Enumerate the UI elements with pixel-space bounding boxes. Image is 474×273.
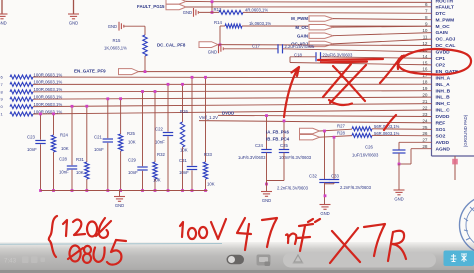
resistor 100R row 5 [10, 105, 33, 109]
resistor 100R row 3 [10, 90, 33, 94]
svg-text:1uF/16V/0603: 1uF/16V/0603 [352, 153, 379, 158]
annotation 1206 [63, 218, 111, 238]
svg-text:10K: 10K [180, 148, 188, 153]
capacitor C21 [107, 138, 109, 143]
svg-text:CP2: CP2 [436, 63, 446, 69]
svg-text:R13: R13 [214, 7, 222, 12]
op-amp U1 gate driver IC body outline [431, 0, 433, 156]
resistor R27 [352, 127, 372, 131]
wire bus row 5 to IC [33, 104, 432, 107]
wire C24 bottom [266, 153, 268, 185]
svg-text:CP1: CP1 [436, 56, 446, 62]
svg-text:DVDD: DVDD [222, 110, 234, 115]
svg-text:C32: C32 [309, 173, 317, 178]
annotation stray stroke [384, 115, 396, 130]
wire R13 to pin7 [243, 11, 432, 14]
junction C25/REF [283, 120, 286, 123]
svg-text:FAULT_PG15: FAULT_PG15 [137, 4, 165, 9]
svg-text:GND: GND [0, 21, 7, 26]
svg-text:R24: R24 [60, 133, 68, 138]
annotation 100V [180, 219, 226, 239]
wire vertical drop x=120.6 [120, 99, 122, 191]
capacitor C22 [167, 132, 169, 137]
svg-text:OC_ADJ: OC_ADJ [436, 37, 456, 43]
junction bus bottom x=142.5 [141, 189, 144, 192]
svg-text:C28: C28 [59, 157, 67, 162]
junction bus bottom x=107.8 [106, 189, 109, 192]
capacitor C29 [141, 166, 143, 171]
svg-text:M_PWM: M_PWM [436, 17, 455, 23]
wire gnd to R13 [199, 11, 219, 13]
svg-text:R26: R26 [180, 109, 188, 114]
junction bus bottom x=86.8 [85, 189, 88, 192]
wire AVDD down to C26 [398, 142, 400, 150]
svg-text:1uF/6.3V/0603: 1uF/6.3V/0603 [238, 155, 266, 160]
svg-text:INL_C: INL_C [436, 108, 451, 114]
svg-text:10nF: 10nF [128, 170, 138, 175]
junction bus bottom x=53.5 [52, 189, 55, 192]
wire C18 left leg [290, 56, 316, 58]
wire C18 to pin15 CP2 [290, 63, 432, 65]
wire C32 top [324, 131, 326, 180]
junction row tap x=120.6 [119, 97, 122, 100]
node B junction [211, 11, 214, 14]
annotation ditto marks [308, 219, 320, 222]
svg-text:nFAULT: nFAULT [436, 4, 454, 10]
wire vertical drop x=182.5 [182, 84, 184, 190]
svg-text:C21: C21 [94, 135, 102, 140]
off-page flag upper (clipped net) [166, 0, 186, 4]
off-page flag EN_GATE_PF9 [119, 69, 139, 75]
junction bus bottom x=182.5 [181, 189, 184, 192]
svg-text:1k,0603,1%: 1k,0603,1% [249, 21, 271, 26]
junction C32/IA [323, 130, 326, 133]
resistor R24 [51, 135, 56, 152]
wire vertical drop x=142.5 [142, 92, 144, 191]
capacitor C17 [277, 44, 279, 53]
capacitor C23 [39, 140, 41, 145]
svg-text:C25: C25 [280, 143, 288, 148]
junction row tap x=107.8 [106, 97, 109, 100]
resistor R26 [180, 122, 185, 147]
junction row tap x=168.0 [167, 83, 170, 86]
wire C26 bottom [398, 153, 400, 164]
node A junction [211, 0, 214, 3]
svg-text:ROCTH: ROCTH [436, 0, 454, 4]
wire vertical drop x=86.8 [86, 106, 88, 190]
svg-text:DC_CAL_PF8: DC_CAL_PF8 [157, 42, 186, 47]
svg-text:11: 11 [423, 35, 428, 40]
svg-text:10nF: 10nF [155, 140, 165, 145]
annotation oval around CP pins [398, 49, 471, 75]
resistor R15 [143, 35, 147, 56]
wire DC_CAL to pin12 [218, 44, 432, 47]
svg-text:EN_GATE_PF9: EN_GATE_PF9 [74, 69, 106, 74]
wire bottom GND bus [41, 190, 208, 192]
svg-text:10nF: 10nF [59, 170, 69, 175]
wire thermal pad stub [454, 156, 456, 180]
svg-text:GAIN: GAIN [297, 33, 308, 38]
resistor 100R row 4 [10, 97, 33, 101]
ground top far-left (clipped) [1, 0, 3, 14]
wire vertical drop x=192.0 [191, 77, 193, 190]
junction row tap x=40.5 [39, 113, 42, 116]
svg-text:10K: 10K [128, 140, 136, 145]
resistor R32 [152, 162, 157, 179]
junction bus bottom x=72.0 [71, 189, 74, 192]
junction row tap x=182.5 [181, 83, 184, 86]
wire down to gnd F [398, 164, 400, 190]
decorative faint blue rule [0, 243, 222, 246]
svg-text:10nF: 10nF [27, 147, 37, 152]
wire GAIN to IC [333, 33, 432, 36]
wire vertical drop x=107.8 [107, 99, 109, 191]
annotation 47nF [237, 218, 313, 251]
svg-text:GND: GND [115, 203, 124, 208]
resistor 100R row 6 [10, 112, 33, 116]
junction bus bottom x=40.5 [39, 189, 42, 192]
wire bus row 1 to IC [33, 76, 432, 79]
wire gnd to C17 [224, 48, 278, 50]
svg-text:4R,0603,1%: 4R,0603,1% [245, 7, 268, 12]
wire C17 to pin13 GVDD [283, 49, 432, 52]
wire M_OC to IC [333, 26, 432, 27]
wire FAULT to pin6 [186, 6, 432, 8]
junction C33/IB [333, 136, 336, 139]
toggle switch icon [227, 255, 245, 264]
wire C25 bottom [283, 153, 285, 181]
capacitor C32 [319, 179, 329, 181]
wire vertical drop x=40.5 [40, 114, 42, 191]
wire bus row 6 to IC [33, 110, 432, 114]
svg-text:INL_B: INL_B [436, 95, 451, 101]
wire C25 top [283, 121, 285, 150]
junction EN_GATE/R15 [144, 70, 147, 73]
svg-text:C22: C22 [155, 127, 163, 132]
wire vertical drop x=53.5 [53, 114, 55, 191]
svg-text:M_OC: M_OC [295, 25, 309, 30]
wire R27 to pin25 [372, 128, 432, 131]
capacitor C28 [71, 165, 73, 170]
wire to gnd D [266, 181, 268, 192]
svg-text:Vref_1.2V: Vref_1.2V [199, 115, 218, 120]
junction row tap x=72.0 [71, 105, 74, 108]
svg-text:10K: 10K [76, 170, 84, 175]
off-page flag FAULT_PG15 [166, 4, 186, 9]
ground under C32/C33 [320, 204, 331, 206]
svg-text:R28: R28 [337, 131, 345, 136]
wire bus row 2 to IC [33, 83, 432, 85]
wire vertical drop x=205.5 [205, 77, 207, 190]
wire pin27 AVDD left [399, 141, 432, 143]
svg-text:SO2: SO2 [436, 133, 446, 139]
wire C24 top [266, 116, 268, 150]
svg-text:INL_A: INL_A [436, 82, 451, 88]
junction C24/DVDD [265, 114, 268, 117]
svg-text:IA_FB_PA6: IA_FB_PA6 [266, 130, 289, 135]
svg-text:C31: C31 [179, 158, 187, 163]
wire OC-ADJ to IC [333, 39, 432, 44]
svg-text:DVDD: DVDD [436, 114, 450, 120]
wire vertical junction x212 [211, 2, 213, 13]
annotation arrow to C18 [284, 69, 298, 118]
wire C32 bottom [324, 183, 326, 205]
junction row tap x=53.5 [52, 112, 55, 115]
wire flag to node A [186, 0, 212, 2]
svg-text:GND: GND [208, 50, 217, 55]
junction R14/DC_CAL [219, 43, 222, 46]
svg-text:INH_B: INH_B [436, 88, 451, 94]
blue seal stamp (partial) [460, 196, 474, 255]
svg-text:GAIN: GAIN [436, 30, 449, 36]
svg-text:R15: R15 [113, 38, 121, 43]
svg-text:10K: 10K [153, 178, 161, 183]
svg-text:(GROUND PAD): (GROUND PAD) [463, 114, 468, 147]
svg-text:GND: GND [69, 21, 78, 26]
wire GND drop from bus [119, 191, 121, 197]
off-page flag GAIN [309, 33, 333, 38]
wire vertical drop x=168.0 [167, 84, 169, 190]
off-page flag M_PWM [309, 16, 333, 21]
ground bottom bus [114, 196, 125, 198]
svg-text:10nF: 10nF [179, 170, 189, 175]
junction bus bottom x=120.6 [119, 189, 122, 192]
svg-text:1K,0603,1%: 1K,0603,1% [104, 46, 127, 51]
danmaku icon [257, 255, 271, 266]
junction row tap x=142.5 [141, 90, 144, 93]
wire bus row 4 to IC [33, 97, 432, 99]
junction bus bottom x=155.0 [154, 189, 157, 192]
svg-text:GND: GND [108, 24, 117, 29]
capacitor C33 [329, 179, 339, 181]
resistor R13 [219, 10, 243, 14]
svg-text:R33: R33 [204, 152, 212, 157]
wire M_PWM to IC [333, 19, 432, 20]
ground under C24/C25 [261, 191, 272, 193]
wire R14 left leg [220, 25, 225, 27]
annotation X7R [330, 224, 406, 263]
svg-text:C29: C29 [128, 158, 136, 163]
wire REF to pin24 [199, 121, 432, 123]
svg-text:R32: R32 [157, 152, 165, 157]
wire C33 top [333, 137, 335, 179]
wire vertical drop x=72.0 [71, 106, 73, 190]
status text faint cjk blobs [22, 257, 45, 264]
resistor R28 [352, 133, 372, 137]
capacitor C26 [393, 149, 406, 151]
svg-text:2.2nF/6.3V/0603: 2.2nF/6.3V/0603 [277, 186, 309, 191]
wire IA to R27 [320, 129, 353, 131]
svg-text:AVDD: AVDD [436, 140, 450, 146]
junction bus bottom x=192.0 [191, 189, 194, 192]
node thermal pad square [452, 159, 458, 165]
capacitor C24 [261, 149, 271, 151]
svg-text:7:43: 7:43 [4, 258, 17, 265]
svg-text:GND: GND [320, 211, 329, 216]
svg-text:M_PWM: M_PWM [291, 16, 308, 21]
svg-text:C33: C33 [331, 173, 339, 178]
svg-text:C24: C24 [255, 143, 263, 148]
video control bar background [0, 242, 474, 273]
annotation X cross-out [323, 64, 366, 105]
wire R14 to pin9 [242, 25, 432, 27]
wire IB to R28 [320, 136, 353, 138]
capacitor C18 [315, 52, 317, 61]
svg-text:R27: R27 [337, 124, 345, 129]
resistor R31 [84, 162, 89, 179]
off-page flag OC-ADJ [309, 41, 333, 46]
ground right [394, 189, 405, 191]
svg-text:10K: 10K [207, 182, 215, 187]
svg-text:M_OC: M_OC [436, 24, 451, 30]
resistor 100R row 2 [10, 82, 33, 86]
wire C33 bottom [333, 183, 335, 184]
junction bus bottom x=205.5 [204, 189, 207, 192]
svg-text:C23: C23 [27, 135, 35, 140]
svg-text:GND: GND [183, 10, 192, 15]
wire DVDD to pin23 [218, 115, 432, 116]
svg-text:C17: C17 [252, 44, 260, 49]
annotation brace { [49, 216, 57, 257]
svg-text:INH_C: INH_C [436, 101, 451, 107]
wire R15 bottom [144, 56, 146, 72]
junction row tap x=205.5 [204, 76, 207, 79]
ground top second [73, 0, 75, 14]
svg-text:2.2nF/6.3V/0603: 2.2nF/6.3V/0603 [340, 185, 372, 190]
svg-text:GND: GND [262, 198, 271, 203]
wire EN_GATE to pin16 [139, 70, 432, 72]
svg-text:R14: R14 [214, 20, 222, 25]
capacitor C31 [191, 166, 193, 171]
junction row tap x=86.8 [85, 105, 88, 108]
junction C24/C25 gnd [265, 183, 268, 186]
off-page flag DC_CAL_PF8 [199, 42, 218, 48]
svg-text:10: 10 [422, 28, 428, 33]
resistor 100R row 1 [10, 75, 33, 79]
svg-text:R25: R25 [127, 131, 135, 136]
junction row tap x=155.0 [154, 90, 157, 93]
resistor R25 [118, 134, 123, 151]
wire R28 to pin26 [372, 134, 432, 136]
svg-text:IB_FB_PC4: IB_FB_PC4 [266, 136, 290, 141]
junction C32/C33 gnd [324, 194, 327, 197]
junction row tap x=192.0 [191, 76, 194, 79]
svg-text:SO1: SO1 [436, 127, 446, 133]
svg-text:10K: 10K [61, 146, 69, 151]
off-page flag M_OC [309, 25, 333, 30]
svg-text:GND: GND [394, 197, 403, 202]
send button [444, 251, 474, 267]
wire C18 to pin14 CP1 [321, 57, 432, 59]
resistor R33 [203, 162, 208, 179]
svg-text:C26: C26 [365, 145, 373, 150]
resistor R14 [225, 24, 242, 28]
wire AGND down [410, 149, 412, 164]
annotation underline C18 value [318, 59, 383, 62]
svg-text:10nF: 10nF [94, 147, 104, 152]
svg-text:INH_A: INH_A [436, 75, 451, 81]
wire gnd to R15 top [124, 25, 145, 27]
junction bus bottom x=168.0 [167, 189, 170, 192]
svg-text:DTC: DTC [436, 11, 447, 17]
chat input field [283, 253, 436, 268]
svg-text:REF: REF [436, 121, 446, 127]
svg-text:R31: R31 [76, 157, 84, 162]
annotation 0805 [68, 240, 126, 265]
capacitor C25 [279, 149, 289, 151]
svg-text:AGND: AGND [436, 146, 451, 152]
wire vertical drop x=155.0 [154, 92, 156, 191]
off-page flag IA_FB [300, 128, 320, 133]
junction AGND/C26 [398, 163, 401, 166]
wire pin5 net [212, 1, 432, 4]
wire bus row 3 to IC [33, 91, 432, 92]
wire pin28 AGND left [411, 148, 432, 150]
svg-text:2.2uF/25V/0805: 2.2uF/25V/0805 [285, 44, 315, 49]
off-page flag IB_FB [300, 135, 320, 140]
